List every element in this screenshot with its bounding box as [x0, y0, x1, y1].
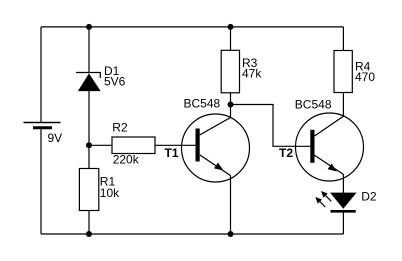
transistor T2 circle — [296, 113, 364, 181]
svg-text:D2: D2 — [361, 190, 377, 204]
svg-text:470: 470 — [355, 70, 375, 84]
diode D1 triangle — [79, 75, 100, 91]
diode D1 zener cathode bar — [76, 73, 100, 79]
junction R3 / T1 collector / T2 base — [228, 102, 234, 108]
wire top rail — [41, 26, 343, 28]
svg-text:BC548: BC548 — [184, 97, 221, 111]
junction D1 / R1 / R2 — [86, 142, 92, 148]
LED D2 light arrow 1 — [321, 191, 331, 201]
wire D2 to bottom rail — [342, 213, 344, 235]
svg-text:220k: 220k — [113, 153, 140, 167]
transistor T1 collector line — [200, 118, 231, 136]
battery B1 long plate — [24, 122, 61, 124]
wire T1 collector to R3 — [230, 93, 232, 118]
wire R4 to top rail corner — [342, 27, 344, 51]
wire T2 collector to R4 — [342, 93, 344, 117]
wire top rail to D1 — [88, 27, 90, 73]
transistor T1 base bar — [196, 129, 200, 162]
wire R2 to T1 base — [155, 144, 196, 146]
resistor R4 body — [334, 51, 352, 93]
svg-text:T1: T1 — [165, 146, 179, 160]
resistor R3 body — [221, 50, 239, 93]
wire bottom rail — [41, 233, 343, 235]
svg-text:47k: 47k — [242, 67, 262, 81]
svg-text:5V6: 5V6 — [104, 75, 126, 89]
LED D2 triangle — [331, 193, 355, 208]
resistor R1 body — [79, 169, 98, 211]
wire battery minus to bottom rail — [40, 128, 42, 234]
wire node T1 collector to T2 base — [231, 105, 311, 147]
wire T2 emitter to D2 — [342, 175, 344, 194]
junction bottom rail / R1 — [86, 231, 92, 237]
LED D2 light arrow 2 — [315, 197, 325, 207]
junction bottom rail / T1 emitter — [228, 231, 234, 237]
wire R3 to top rail — [230, 27, 232, 50]
junction top rail / R3 — [228, 24, 234, 30]
transistor T2 base bar — [310, 130, 314, 163]
transistor T1 emitter line — [200, 155, 231, 176]
resistor R2 body — [112, 137, 155, 154]
svg-text:9V: 9V — [48, 131, 63, 145]
transistor T2 emitter line — [315, 155, 344, 174]
svg-text:R2: R2 — [112, 121, 128, 135]
wire node to R2 — [89, 144, 112, 146]
transistor T1 emitter arrow — [214, 163, 223, 171]
svg-text:BC548: BC548 — [295, 98, 332, 112]
wire left rail to battery — [40, 27, 42, 123]
transistor T2 emitter arrow — [328, 164, 337, 172]
LED D2 cathode bar — [331, 210, 356, 213]
transistor T1 circle — [182, 114, 250, 182]
svg-text:T2: T2 — [279, 146, 293, 160]
wire D1 anode to node and R1 — [88, 91, 90, 169]
wire R1 to bottom rail — [88, 211, 90, 235]
junction top rail / D1 — [86, 24, 92, 30]
transistor T2 collector line — [315, 116, 344, 136]
wire T1 emitter to bottom rail — [230, 176, 232, 234]
battery B1 short plate — [33, 126, 52, 129]
svg-text:10k: 10k — [100, 186, 120, 200]
